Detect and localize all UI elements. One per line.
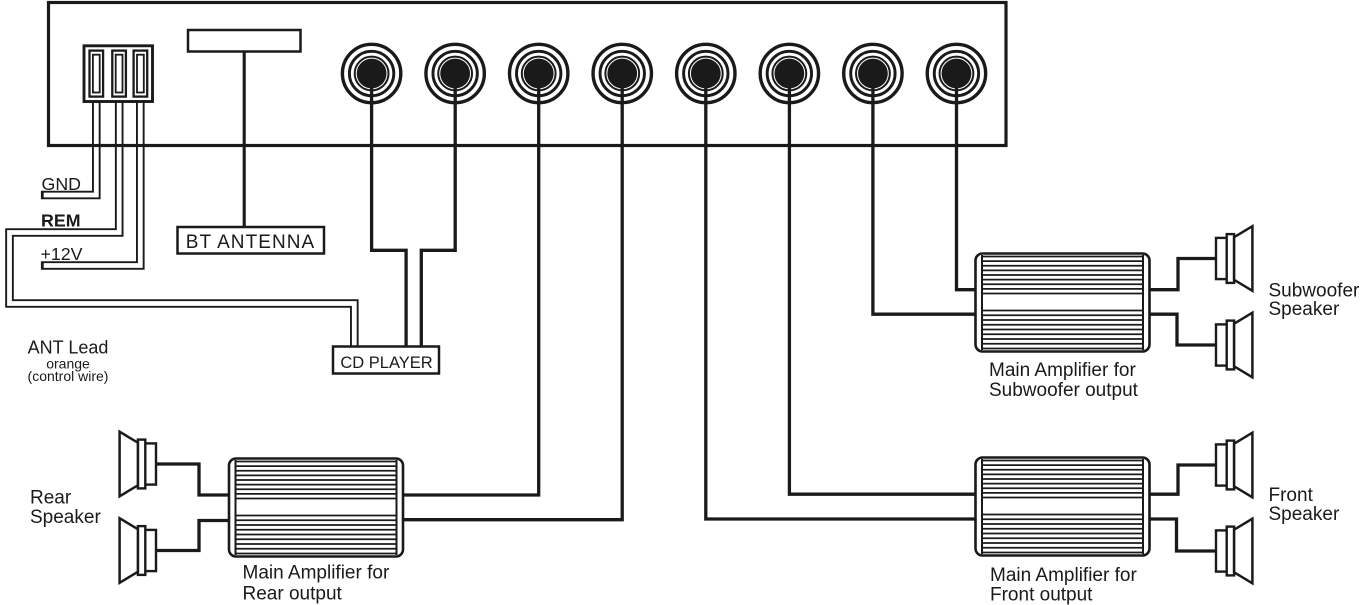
RCA jack J4: [593, 44, 651, 102]
wire subwoofer amplifier to speaker SP1: [1146, 259, 1219, 290]
RCA jack J1: [342, 44, 400, 102]
svg-text:Rear output: Rear output: [243, 584, 343, 605]
svg-text:Speaker: Speaker: [1269, 504, 1340, 525]
svg-text:Rear: Rear: [30, 488, 72, 509]
wire J7 to subwoofer amplifier: [873, 74, 979, 315]
svg-text:(control wire): (control wire): [28, 368, 109, 384]
BT antenna stub connector on head unit: [188, 30, 301, 52]
power connector block on head unit: [84, 46, 153, 102]
wire J5 to front amplifier: [706, 74, 979, 520]
wire end cap +12V: [41, 261, 43, 269]
wire BT antenna stub to BT ANTENNA box: [243, 52, 246, 228]
RCA jack J3: [510, 44, 568, 102]
wire +12V lead (outlined): [42, 98, 141, 266]
svg-text:REM: REM: [41, 211, 81, 231]
svg-text:ANT Lead: ANT Lead: [28, 338, 109, 358]
head unit (equalizer) body: [49, 3, 1007, 146]
wire J2 to CD player: [421, 74, 455, 349]
wire GND lead (outlined): [42, 98, 97, 195]
svg-text:CD PLAYER: CD PLAYER: [340, 354, 432, 372]
speaker SP1 subwoofer top: [1216, 226, 1252, 291]
wire front amplifier to speaker SP6: [1146, 519, 1219, 551]
wire J6 to front amplifier: [789, 74, 979, 495]
connector pin 3 (+12V): [134, 51, 148, 97]
wire J3 to rear amplifier: [400, 74, 539, 496]
head unit outline (redrawn over wires): [49, 3, 1007, 146]
wire end cap GND: [41, 191, 43, 199]
amplifier rear: body: [229, 459, 403, 557]
amplifier front: body: [976, 458, 1150, 556]
BT ANTENNA box: [178, 227, 325, 254]
svg-text:Main Amplifier for: Main Amplifier for: [243, 563, 390, 584]
CD PLAYER box: [333, 347, 439, 374]
wire rear amplifier to speaker SP3: [153, 464, 232, 495]
connector pin 1 (GND): [90, 51, 104, 97]
svg-text:BT ANTENNA: BT ANTENNA: [186, 232, 315, 253]
RCA jack J8: [927, 44, 985, 102]
svg-text:Speaker: Speaker: [30, 507, 101, 528]
RCA jack J5: [677, 44, 735, 102]
svg-text:Front output: Front output: [990, 584, 1093, 605]
connector pin 2 (REM): [112, 51, 126, 97]
svg-text:Subwoofer output: Subwoofer output: [989, 380, 1139, 401]
wire rear amplifier to speaker SP4: [153, 521, 232, 551]
svg-text:GND: GND: [42, 174, 82, 194]
wire J8 to subwoofer amplifier: [957, 74, 980, 290]
wire J1 to CD player: [372, 74, 407, 349]
svg-text:Main Amplifier for: Main Amplifier for: [990, 565, 1137, 586]
svg-text:Front: Front: [1269, 485, 1314, 506]
svg-text:Main Amplifier for: Main Amplifier for: [989, 360, 1136, 381]
wire subwoofer amplifier to speaker SP2: [1146, 314, 1219, 345]
svg-text:Speaker: Speaker: [1269, 299, 1340, 320]
RCA jack J7: [844, 44, 902, 102]
RCA jack J2: [426, 44, 484, 102]
wire front amplifier to speaker SP5: [1146, 465, 1219, 494]
speaker SP2 subwoofer bottom: [1216, 313, 1252, 378]
wire REM / ANT control lead (outlined): [10, 98, 355, 348]
RCA jack J6: [760, 44, 818, 102]
svg-text:+12V: +12V: [41, 244, 83, 264]
speaker SP6 front bottom: [1216, 519, 1252, 584]
amplifier subwoofer: body: [976, 254, 1150, 352]
speaker SP5 front top: [1216, 433, 1252, 498]
speaker SP3 rear top: [120, 432, 156, 497]
speaker SP4 rear bottom: [120, 518, 156, 583]
wire J4 to rear amplifier: [400, 74, 622, 520]
